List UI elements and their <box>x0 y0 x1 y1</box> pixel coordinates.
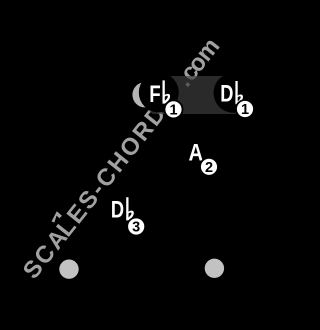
finger disc Db <box>214 73 254 113</box>
stray watermark caret mark above A <box>52 211 63 222</box>
finger disc Fb <box>139 73 179 113</box>
finger badge 3 (Db) <box>127 218 145 236</box>
watermark SCALES-CHORDS.com <box>18 33 226 284</box>
svg-text:2: 2 <box>205 160 213 176</box>
finger badge 2 (A) <box>200 158 218 176</box>
open string dot right <box>205 259 224 278</box>
finger badge 1 (Db) <box>236 100 254 118</box>
note label Db (fret 3) <box>111 196 134 223</box>
open string ring (behind Fb disc) <box>132 82 157 107</box>
svg-text:1: 1 <box>241 102 249 118</box>
note label Db (barre) <box>220 80 243 107</box>
svg-text:F: F <box>149 81 160 108</box>
open string dot left <box>59 260 78 279</box>
svg-text:3: 3 <box>132 220 140 236</box>
barre bar fret 1 <box>148 76 244 114</box>
finger badge 1 (Fb) <box>165 100 183 118</box>
note label Fb <box>149 80 170 107</box>
svg-text:1: 1 <box>169 103 177 119</box>
svg-text:D: D <box>220 80 233 107</box>
svg-text:D: D <box>111 196 124 223</box>
